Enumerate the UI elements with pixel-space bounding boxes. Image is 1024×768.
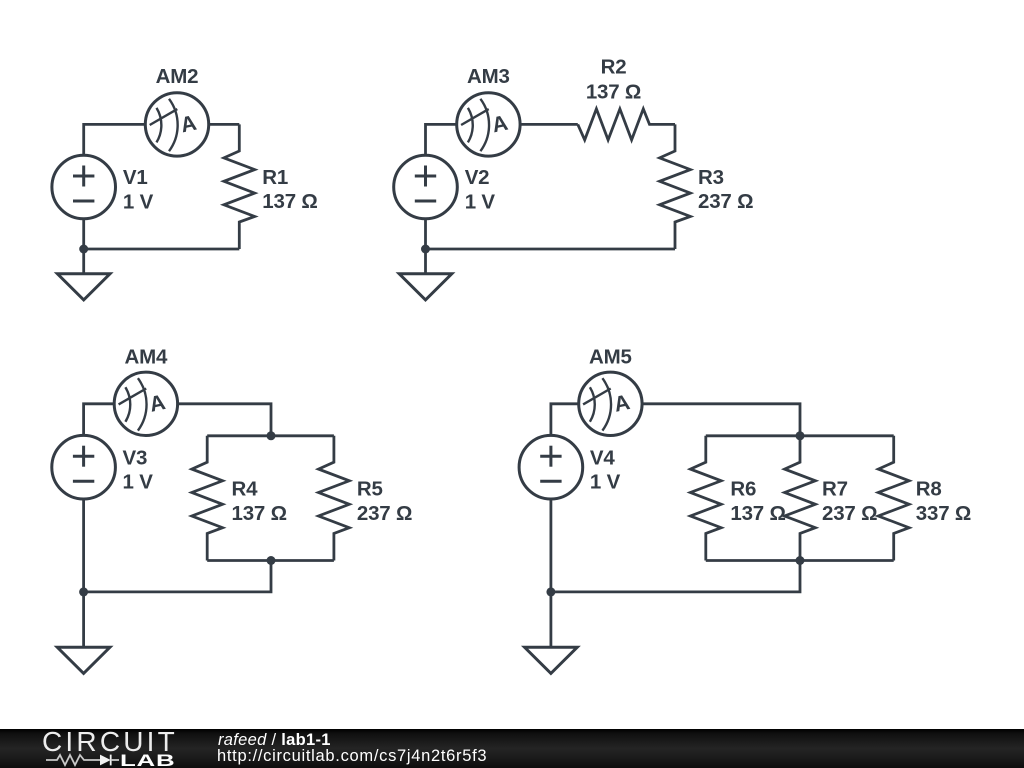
- svg-text:137 Ω: 137 Ω: [262, 190, 317, 213]
- logo LAB: [120, 751, 175, 768]
- wire bottom net circuit1: [84, 248, 240, 251]
- node top junction circuit4: [796, 431, 805, 440]
- wire V3 top to AM4: [84, 404, 115, 436]
- node junction circuit3: [79, 587, 88, 596]
- svg-text:A: A: [612, 390, 632, 417]
- svg-text:1 V: 1 V: [590, 470, 621, 493]
- resistor R5: [319, 436, 350, 561]
- wire rail to bottom net circuit4: [551, 561, 800, 592]
- wire AM5 to parallel rail: [642, 404, 800, 436]
- svg-text:R7: R7: [822, 477, 848, 500]
- svg-text:1 V: 1 V: [123, 190, 154, 213]
- wire V1 top to AM2: [84, 124, 146, 155]
- svg-text:A: A: [490, 111, 510, 138]
- logo resistor-diode glyph: [40, 747, 180, 768]
- wire AM3 to R2: [520, 123, 578, 126]
- svg-text:R4: R4: [232, 477, 259, 500]
- wire AM2 to R1: [209, 123, 240, 126]
- ammeter AM2: [145, 93, 208, 156]
- svg-text:R8: R8: [916, 477, 942, 500]
- wire top rail circuit3: [207, 434, 334, 437]
- resistor R8: [878, 436, 909, 561]
- voltage source V3: [52, 435, 116, 499]
- svg-text:137 Ω: 137 Ω: [730, 502, 785, 525]
- voltage source V1: [52, 155, 116, 219]
- svg-text:R2: R2: [601, 56, 627, 79]
- node junction circuit4: [546, 587, 555, 596]
- resistor R6: [690, 436, 721, 561]
- svg-text:237 Ω: 237 Ω: [698, 190, 753, 213]
- ground: [57, 647, 110, 673]
- svg-text:R1: R1: [262, 166, 288, 189]
- svg-text:V2: V2: [465, 166, 490, 189]
- resistor R7: [785, 436, 816, 561]
- svg-text:A: A: [147, 390, 167, 417]
- svg-text:337 Ω: 337 Ω: [916, 502, 971, 525]
- svg-text:1 V: 1 V: [123, 470, 154, 493]
- wire V2 bottom to ground: [424, 219, 427, 274]
- node junction circuit1: [79, 245, 88, 254]
- wire V1 bottom to ground: [82, 219, 85, 274]
- svg-text:237 Ω: 237 Ω: [357, 502, 412, 525]
- wire bottom rail circuit4: [706, 559, 894, 562]
- svg-text:137 Ω: 137 Ω: [586, 80, 641, 103]
- footer title rafeed / lab1-1: [218, 731, 331, 750]
- node bottom junction circuit3: [267, 556, 276, 565]
- svg-text:AM5: AM5: [589, 346, 632, 369]
- node bottom junction circuit4: [796, 556, 805, 565]
- wire V3 bottom to ground: [82, 498, 85, 647]
- svg-text:V4: V4: [590, 446, 615, 469]
- svg-text:R3: R3: [698, 166, 724, 189]
- svg-text:AM4: AM4: [125, 346, 168, 369]
- node top junction circuit3: [267, 431, 276, 440]
- svg-text:137 Ω: 137 Ω: [232, 502, 287, 525]
- resistor R2: [578, 109, 675, 140]
- wire bottom rail circuit3: [207, 559, 334, 562]
- svg-text:R6: R6: [730, 477, 756, 500]
- resistor R4: [192, 436, 223, 561]
- resistor R1: [224, 124, 255, 249]
- voltage source V2: [394, 155, 458, 219]
- svg-text:A: A: [178, 111, 198, 138]
- svg-text:AM2: AM2: [156, 65, 199, 88]
- wire rail to bottom net: [84, 561, 271, 592]
- ammeter AM3: [457, 93, 520, 156]
- svg-text:R5: R5: [357, 477, 383, 500]
- node junction circuit2: [421, 245, 430, 254]
- svg-text:237 Ω: 237 Ω: [822, 502, 877, 525]
- ammeter AM5: [579, 372, 642, 435]
- voltage source V4: [519, 435, 583, 499]
- wire V4 top to AM5: [551, 404, 579, 436]
- CircuitLab logo CIRCUIT: [42, 728, 178, 756]
- wire bottom net circuit2: [426, 248, 676, 251]
- svg-text:1 V: 1 V: [465, 190, 496, 213]
- wire AM4 to parallel rail: [178, 404, 271, 436]
- svg-text:AM3: AM3: [467, 65, 510, 88]
- ground: [399, 274, 452, 300]
- svg-text:V1: V1: [123, 166, 148, 189]
- ammeter AM4: [114, 372, 177, 435]
- footer url: [217, 747, 487, 766]
- wire V4 bottom to ground: [550, 498, 553, 647]
- ground: [57, 274, 110, 300]
- svg-text:V3: V3: [123, 446, 148, 469]
- resistor R3: [660, 124, 691, 249]
- ground: [525, 647, 578, 673]
- wire V2 top to AM3: [426, 124, 457, 155]
- wire top rail circuit4: [706, 434, 894, 437]
